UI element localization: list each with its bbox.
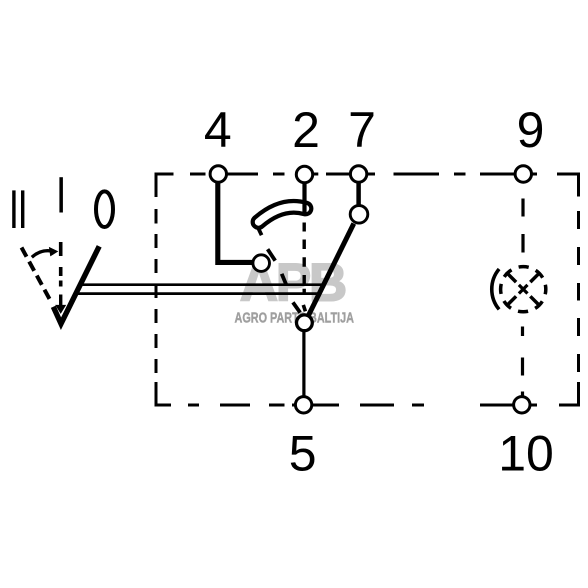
svg-text:9: 9: [517, 102, 545, 158]
terminal 2 circle: [296, 166, 312, 182]
curved arrow II to I: [32, 251, 51, 257]
wire from terminal 4 to contact: [218, 182, 254, 263]
lamp illumination arc: [492, 269, 499, 309]
contact circle of terminal 7 branch: [350, 206, 368, 224]
switch body outline: right edge (dashed): [577, 173, 580, 407]
terminal 7 circle: [350, 166, 366, 182]
dashed wire terminal 9 to lamp: [521, 199, 524, 253]
actuator lever (checkmark): [53, 246, 99, 323]
terminal 4 circle: [210, 166, 226, 182]
svg-text:2: 2: [292, 102, 320, 158]
lamp cross spokes: [508, 274, 539, 305]
contact bridge (curved capsule): [259, 207, 306, 222]
label I (position I): [59, 177, 63, 212]
svg-text:4: 4: [204, 102, 232, 158]
position I dashed travel line: [59, 242, 63, 287]
terminal 5 circle: [295, 397, 311, 413]
pivot contact circle: [297, 315, 313, 331]
mechanical link double line upper: [80, 283, 323, 286]
contact circle of terminal 4 branch: [253, 255, 270, 272]
position II dashed travel line: [22, 248, 53, 304]
dashed wire terminal 2 line to pivot: [303, 223, 306, 293]
lamp center x: [519, 285, 528, 294]
switch body outline: bottom edge (dashed): [156, 404, 579, 407]
moving contact arm from contact of 7 to pivot: [308, 224, 354, 317]
svg-text:5: 5: [289, 426, 317, 482]
mechanical link double line lower: [76, 292, 319, 295]
arrow down at position I line: [59, 295, 62, 307]
wire stub below terminal 7: [356, 183, 361, 207]
dashed link from bridge contact to pivot: [254, 220, 300, 313]
label 0 (position 0): [96, 191, 113, 227]
wire stub below terminal 2: [302, 182, 306, 214]
lamp L: dashed circle: [501, 267, 546, 312]
svg-text:7: 7: [348, 102, 376, 158]
terminal 10 circle: [514, 397, 530, 413]
label II (position II): [12, 190, 24, 228]
wire pivot to terminal 5: [302, 331, 305, 397]
switch body outline: top edge (dashed): [156, 173, 579, 176]
svg-text:AGRO PARTS BALTIJA: AGRO PARTS BALTIJA: [235, 310, 355, 327]
switch body outline: left edge (dashed): [155, 173, 158, 407]
svg-text:10: 10: [498, 425, 554, 481]
dashed wire lamp to terminal 10: [521, 327, 524, 397]
terminal 9 circle: [515, 166, 531, 182]
